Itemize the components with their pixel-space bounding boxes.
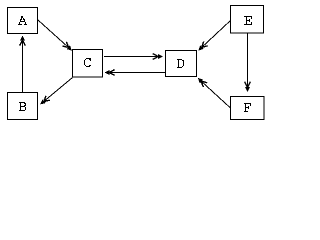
arrow F to D — [198, 78, 230, 108]
node D box — [166, 51, 197, 77]
arrow E to D — [199, 21, 231, 51]
arrow C to B — [41, 78, 73, 105]
arrow B to A — [22, 36, 24, 93]
label A — [18, 16, 27, 25]
node B box — [8, 93, 38, 120]
node F box — [231, 97, 265, 120]
arrow C to D — [104, 56, 162, 58]
node E box — [231, 6, 264, 34]
label D — [177, 59, 184, 68]
label E — [244, 16, 252, 25]
node C box — [73, 50, 103, 78]
arrow D to C — [105, 72, 166, 74]
label F — [244, 103, 251, 112]
label B — [19, 102, 26, 111]
label C — [84, 58, 91, 67]
node A box — [8, 8, 38, 34]
arrow E to F — [247, 33, 249, 91]
arrow A to C — [38, 20, 72, 50]
